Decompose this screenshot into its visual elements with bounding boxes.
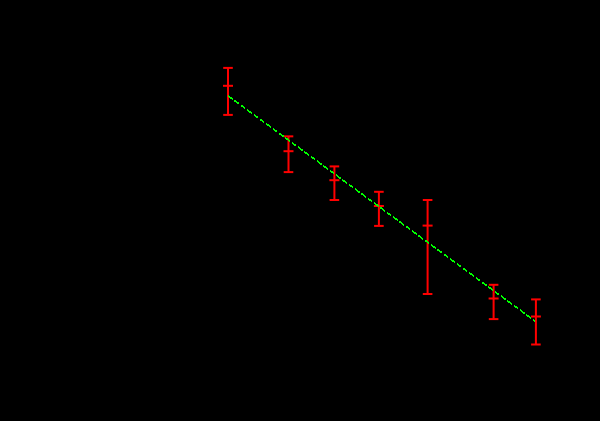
error bar 5	[423, 200, 433, 294]
data point marker 7	[531, 316, 541, 318]
data point marker 5	[423, 225, 433, 227]
error bar 7	[531, 299, 541, 344]
error bar 4	[374, 192, 384, 226]
data point marker 2	[284, 150, 294, 152]
error bar 6	[489, 285, 499, 319]
data point marker 6	[489, 298, 499, 300]
error bar 2	[284, 136, 294, 172]
error bar 3	[330, 166, 340, 200]
fit line (green dashed)	[228, 95, 535, 322]
data point marker 3	[329, 179, 339, 181]
error bar 1	[223, 68, 233, 115]
data point marker 1	[223, 85, 233, 87]
data point marker 4	[374, 205, 384, 207]
